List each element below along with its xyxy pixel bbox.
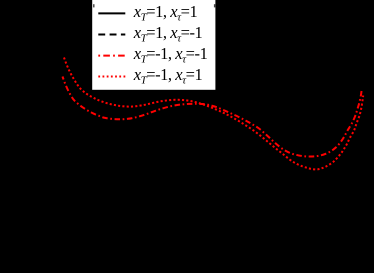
legend frame corner marks: [93, 4, 94, 7]
curve: red dotted (x_T=-1, x_tau=1): [64, 58, 363, 170]
curve: red dash-dot (x_T=-1, x_tau=-1): [63, 77, 362, 157]
legend sample: dotted red: [98, 76, 125, 78]
legend sample: solid black: [98, 12, 125, 14]
legend sample: dashed black: [98, 34, 125, 36]
legend sample: dash-dot red: [98, 55, 125, 57]
legend box: [92, 0, 215, 90]
